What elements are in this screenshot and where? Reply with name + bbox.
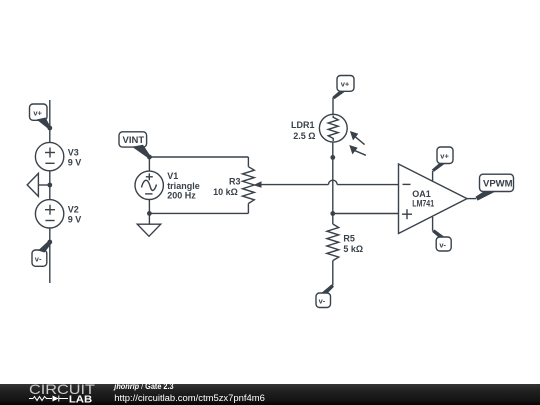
wire op-amp V+ pin: [432, 171, 434, 181]
wire R5 bottom stub: [332, 261, 334, 286]
svg-text:200 Hz: 200 Hz: [167, 191, 196, 201]
wire top of V1 loop: [149, 156, 248, 158]
node dot VINT: [147, 155, 152, 160]
svg-text:v-: v-: [35, 254, 42, 263]
node dot left-bottom: [47, 240, 52, 245]
node flag VPWM: [476, 174, 514, 200]
node dot plus junction: [330, 211, 335, 216]
wire R3 bottom stub: [247, 204, 249, 214]
label V3 9 V: [68, 147, 82, 167]
op-amp OA1: [399, 164, 468, 234]
label R3 10 kΩ: [213, 177, 240, 197]
label V1 triangle 200 Hz: [167, 171, 200, 201]
wire left rail bottom: [49, 228, 51, 283]
svg-text:v-: v-: [319, 297, 326, 306]
svg-text:LDR1: LDR1: [291, 120, 315, 130]
label LDR1 2.5 Ω: [291, 120, 316, 141]
svg-text:v+: v+: [341, 80, 350, 89]
wire to op-amp plus: [333, 213, 399, 215]
power flag v+ (op-amp): [432, 147, 453, 172]
svg-text:jhonrlp / Gate 2.3: jhonrlp / Gate 2.3: [113, 382, 174, 391]
logo CIRCUITLAB: [29, 381, 96, 405]
voltage source V2: [35, 200, 63, 228]
wire left rail middle: [49, 171, 51, 200]
svg-text:V2: V2: [68, 204, 79, 214]
node dot left-mid: [47, 183, 52, 188]
svg-text:V1: V1: [167, 171, 178, 181]
label R5 5 kΩ: [343, 234, 363, 255]
ground (down) under V1: [137, 213, 160, 236]
node flag v- (left bottom): [32, 241, 52, 267]
svg-text:v-: v-: [439, 240, 446, 249]
resistor R3 (pot): [243, 167, 255, 204]
node dot V1 bottom: [147, 211, 152, 216]
node dot under LDR: [330, 155, 335, 160]
ground (left-pointing): [27, 173, 50, 196]
wire bottom of V1 loop: [149, 212, 248, 214]
svg-text:LAB: LAB: [69, 395, 92, 405]
node flag v- (R5 bottom): [316, 284, 334, 307]
svg-text:5 kΩ: 5 kΩ: [343, 244, 363, 254]
svg-text:v+: v+: [440, 151, 449, 160]
svg-text:triangle: triangle: [167, 181, 200, 191]
svg-text:OA1: OA1: [412, 189, 431, 199]
voltage source V3: [35, 142, 63, 170]
power flag v- (op-amp): [432, 230, 451, 252]
wire V1 top stub: [148, 157, 150, 171]
node flag VINT: [119, 132, 150, 158]
svg-text:VINT: VINT: [123, 135, 145, 146]
wire V1 bottom stub: [148, 200, 150, 214]
wire op-amp V- pin: [432, 217, 434, 231]
node dot left-top: [47, 126, 52, 131]
wire wiper to op-amp minus: [337, 184, 398, 186]
pot wiper arrow: [253, 181, 328, 187]
wire center column: [332, 142, 334, 224]
wire R3 top stub: [247, 157, 249, 167]
node flag v+ (left top): [30, 104, 51, 129]
source V1: [135, 171, 163, 199]
svg-text:9 V: 9 V: [68, 215, 82, 225]
svg-text:R3: R3: [229, 177, 241, 187]
resistor R5: [327, 224, 339, 261]
wire hop: [328, 180, 337, 184]
svg-text:V3: V3: [68, 147, 79, 157]
wire LDR top stub: [332, 98, 334, 115]
svg-text:http://circuitlab.com/ctm5zx7p: http://circuitlab.com/ctm5zx7pnf4m6: [114, 393, 265, 403]
svg-text:10 kΩ: 10 kΩ: [213, 187, 238, 197]
node flag v+ (LDR top): [333, 76, 354, 100]
photoresistor LDR1: [319, 114, 366, 155]
label V2 9 V: [68, 204, 82, 224]
label OA1 LM741: [412, 189, 434, 209]
svg-text:2.5 Ω: 2.5 Ω: [293, 131, 315, 141]
svg-text:VPWM: VPWM: [483, 179, 513, 190]
svg-text:LM741: LM741: [412, 199, 434, 209]
svg-text:R5: R5: [343, 234, 355, 244]
svg-text:9 V: 9 V: [68, 158, 82, 168]
wire left rail top: [49, 100, 51, 143]
svg-text:v+: v+: [33, 108, 42, 117]
wire op-amp output: [467, 198, 476, 200]
